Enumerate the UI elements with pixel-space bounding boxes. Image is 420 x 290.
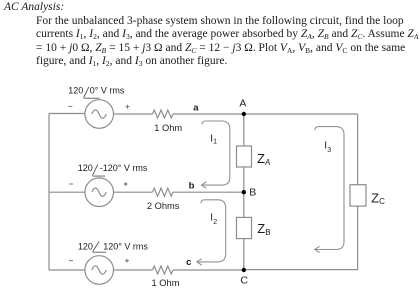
- svg-text:C: C: [379, 197, 385, 206]
- wire middle branch ZA to ZB: [243, 167, 245, 217]
- svg-text:Z: Z: [257, 221, 265, 236]
- svg-text:120: 120: [78, 242, 93, 252]
- svg-text:2: 2: [213, 219, 217, 226]
- svg-text:Z: Z: [257, 151, 265, 166]
- loop arrow I2: [197, 200, 226, 262]
- problem statement line 2: [36, 16, 404, 28]
- problem statement line 4: [36, 43, 405, 55]
- wire row3 resistor to node C: [173, 269, 244, 271]
- resistor R3 1 Ohm: [153, 266, 173, 274]
- svg-text:1 Ohm: 1 Ohm: [154, 123, 182, 133]
- label source V1 value: [68, 86, 125, 99]
- svg-text:120° V rms: 120° V rms: [103, 242, 148, 252]
- wire middle branch A to ZA: [243, 114, 245, 146]
- wire row1 resistor to right corner: [173, 113, 358, 115]
- wire left bus: [48, 114, 50, 271]
- svg-text:1: 1: [213, 139, 217, 146]
- impedance ZC box: [350, 185, 366, 206]
- svg-text:A: A: [264, 158, 270, 167]
- wire row1 source to resistor: [114, 113, 153, 115]
- wire row3 source to resistor: [114, 269, 153, 271]
- svg-text:1 Ohm: 1 Ohm: [152, 278, 180, 288]
- svg-text:3: 3: [327, 147, 331, 154]
- svg-text:Z: Z: [371, 190, 379, 205]
- svg-text:b: b: [189, 181, 195, 192]
- svg-text:120: 120: [78, 163, 93, 173]
- svg-text:-120° V rms: -120° V rms: [100, 163, 148, 173]
- wire row2 resistor to node B: [173, 191, 244, 193]
- node A junction dot: [242, 112, 246, 116]
- wire right branch lower: [244, 206, 358, 270]
- node C junction dot: [242, 268, 246, 272]
- problem statement title: [4, 2, 64, 14]
- source V2: [85, 178, 114, 207]
- resistor R1 1 Ohm: [153, 110, 173, 118]
- label source V3 value: [78, 242, 149, 253]
- problem statement line 3: [36, 29, 418, 41]
- wire row2 source to resistor: [114, 191, 153, 193]
- impedance ZA box: [237, 146, 252, 167]
- svg-text:c: c: [186, 257, 191, 268]
- svg-text:C: C: [240, 274, 248, 286]
- svg-text:B: B: [265, 228, 270, 237]
- polarity minus V2: [69, 183, 73, 185]
- node B junction dot: [242, 190, 246, 194]
- wire right branch upper: [357, 114, 359, 185]
- svg-text:A: A: [239, 98, 246, 110]
- svg-text:0° V rms: 0° V rms: [90, 86, 125, 96]
- loop arrow I1: [201, 121, 229, 185]
- svg-text:120: 120: [68, 86, 83, 96]
- wire row2 left lead: [49, 191, 85, 193]
- wire middle branch ZB to C: [243, 239, 245, 270]
- svg-text:B: B: [249, 186, 256, 198]
- polarity minus V3: [69, 260, 73, 262]
- source V1: [85, 100, 114, 129]
- resistor R2 2 Ohms: [153, 188, 173, 196]
- impedance ZB box: [237, 217, 252, 238]
- problem statement line 5: [36, 56, 227, 68]
- label source V2 value: [78, 163, 148, 176]
- wire row3 left lead: [49, 269, 85, 271]
- svg-text:a: a: [193, 103, 199, 114]
- wire row1 left lead: [49, 113, 85, 115]
- source V3: [85, 256, 114, 285]
- loop arrow I3: [315, 127, 344, 250]
- svg-text:2 Ohms: 2 Ohms: [147, 201, 180, 211]
- polarity minus V1: [68, 105, 72, 107]
- polarity plus V3: [125, 259, 129, 263]
- polarity plus V2: [124, 182, 128, 186]
- polarity plus V1: [126, 105, 130, 109]
